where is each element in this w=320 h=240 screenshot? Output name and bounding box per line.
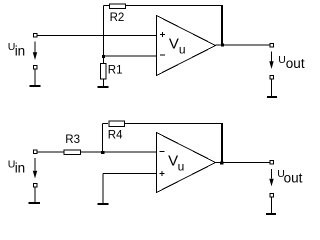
source voltage arrow (bottom Uin) xyxy=(34,158,36,171)
wire R4 left lead xyxy=(103,123,109,125)
input terminal circle (bottom, Uin-) xyxy=(33,66,37,70)
wire R1 top lead xyxy=(103,56,105,63)
svg-text:u: u xyxy=(178,160,185,174)
svg-text:V: V xyxy=(169,36,179,53)
wire op-amp output to Uout terminal xyxy=(216,44,270,46)
wire Uout- to ground xyxy=(271,80,273,97)
label Vu (bottom op-amp gain) xyxy=(168,152,184,173)
ground (bottom Uout) xyxy=(266,213,276,215)
wire R4 right lead to output feedback xyxy=(125,123,223,125)
wire grounded + input (bottom op-amp) xyxy=(103,174,157,204)
svg-text:R3: R3 xyxy=(65,134,80,146)
node A (inverting input node, junction dot) xyxy=(102,55,105,58)
op-amp U (top amplifier triangle) xyxy=(157,16,216,76)
op-amp U (bottom amplifier triangle) xyxy=(157,133,216,193)
output voltage arrow (bottom Uout) xyxy=(271,169,273,179)
wire feedback vertical at output xyxy=(221,5,223,45)
wire Uin terminal to R3 xyxy=(37,151,64,153)
svg-text:R2: R2 xyxy=(110,12,125,24)
wire Uin- terminal to ground xyxy=(34,70,36,86)
pin + (bottom op-amp non-inverting input mark) xyxy=(160,171,165,176)
ground (bottom op-amp + input) xyxy=(98,203,109,205)
svg-text:R4: R4 xyxy=(108,129,123,141)
label Vu (top op-amp gain) xyxy=(169,36,186,57)
ground (top Uout) xyxy=(267,96,277,98)
pin - (top op-amp inverting input mark) xyxy=(160,54,165,56)
output voltage arrow (top Uout) xyxy=(271,52,273,62)
label Uin (top source) xyxy=(8,41,25,58)
wire Uout- to ground (bottom) xyxy=(271,198,273,214)
wire node A to op-amp - input xyxy=(104,55,157,57)
node B (output node junction dot) xyxy=(221,44,224,47)
ground (bottom Uin) xyxy=(29,202,40,204)
resistor R4 xyxy=(109,121,125,126)
svg-text:out: out xyxy=(284,170,303,185)
ground (below R1) xyxy=(98,86,109,88)
wire op-amp output to Uout terminal (bottom) xyxy=(216,162,270,164)
wire Uin- terminal to ground xyxy=(34,188,36,203)
wire feedback vertical at output (bottom) xyxy=(221,123,223,163)
node C (bottom inverting input node, junction dot) xyxy=(101,151,104,154)
svg-text:in: in xyxy=(15,43,26,58)
wire vertical branch from R2 down to inverting node xyxy=(103,6,105,57)
label Uout (top) xyxy=(278,54,305,71)
pin + (top op-amp non-inverting input mark) xyxy=(160,32,165,37)
wire R2 left lead xyxy=(104,5,110,7)
input terminal circle (top, Uin+) xyxy=(33,34,37,38)
resistor R3 xyxy=(64,150,81,155)
wire R1 bottom lead xyxy=(103,79,105,87)
wire node C up to R4 xyxy=(102,124,104,153)
resistor R1 xyxy=(101,63,107,79)
svg-text:in: in xyxy=(15,160,26,175)
node D (bottom output node junction dot) xyxy=(220,161,223,164)
input terminal circle (bottom circuit, Uin-) xyxy=(33,184,37,188)
source voltage arrow (top Uin) xyxy=(34,42,36,54)
wire Uin terminal to op-amp + input xyxy=(37,35,157,37)
pin - (bottom op-amp inverting input mark) xyxy=(160,151,165,153)
output terminal circle (bottom, Uout-) xyxy=(270,76,274,80)
output terminal circle (bottom circuit, Uout+) xyxy=(270,160,274,164)
ground (top Uin) xyxy=(29,85,40,87)
svg-text:u: u xyxy=(179,43,186,57)
svg-text:out: out xyxy=(286,56,305,71)
svg-text:U: U xyxy=(278,54,286,66)
input terminal circle (bottom circuit, Uin+) xyxy=(33,150,37,154)
svg-text:R1: R1 xyxy=(108,65,123,77)
wire R2 right lead to output feedback xyxy=(126,5,223,7)
label Uin (bottom source) xyxy=(8,159,25,176)
resistor R2 xyxy=(109,4,125,9)
wire R3 to op-amp - input xyxy=(81,151,157,153)
label Uout (bottom) xyxy=(277,168,302,185)
output terminal circle (top, Uout+) xyxy=(270,44,274,48)
output terminal circle (bottom circuit, Uout-) xyxy=(270,194,274,198)
